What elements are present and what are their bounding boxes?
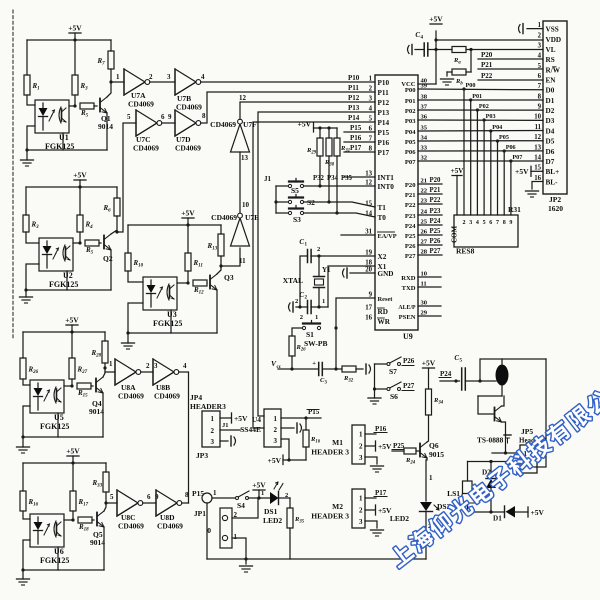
svg-text:3: 3 [325,381,328,386]
resistor Ra [452,47,466,53]
svg-text:15: 15 [534,165,541,172]
wire RES8 pin 9 riser P07 [510,161,512,215]
svg-text:+5V: +5V [268,456,282,465]
optocoupler U6 stage FGK125 [30,514,64,547]
svg-text:R16: R16 [28,498,39,508]
svg-text:P21: P21 [430,187,442,194]
svg-text:P26: P26 [430,238,442,245]
svg-text:FGK125: FGK125 [153,319,182,328]
wire Q5 collector [104,492,106,511]
svg-text:2: 2 [295,298,298,305]
svg-text:6: 6 [489,220,492,226]
svg-text:13: 13 [241,154,249,162]
svg-text:P13: P13 [348,104,360,112]
inverter U8D CD4069 [156,490,177,516]
svg-text:8: 8 [202,112,206,120]
svg-text:P00: P00 [405,87,416,94]
transistor Q2 9014 [103,236,105,249]
svg-text:Y1: Y1 [322,266,331,274]
svg-text:1: 1 [234,533,238,541]
resistor R34 [426,389,432,415]
resistor R31 pull-up [336,128,338,138]
svg-text:R33: R33 [92,479,103,489]
switch S2 [274,200,277,203]
svg-text:+5V: +5V [73,171,87,180]
svg-text:D2: D2 [546,107,555,115]
svg-text:2: 2 [359,507,363,515]
svg-text:FGK125: FGK125 [49,280,78,289]
svg-text:3: 3 [211,438,215,446]
svg-text:9014: 9014 [90,538,105,547]
svg-text:10: 10 [242,201,250,209]
wire U2 stage base node [73,242,80,244]
svg-text:P05: P05 [499,134,509,141]
svg-text:R18: R18 [78,523,89,533]
wire R34 to Q6 collector [427,415,429,442]
svg-text:5: 5 [110,493,114,501]
svg-text:RS: RS [546,56,555,64]
wire R35 down to bottom rail [289,528,291,559]
wire LS1 bottom [467,503,469,512]
svg-text:P10: P10 [348,74,360,82]
svg-text:P17: P17 [375,489,387,497]
wire DS1 to R35 [279,497,291,499]
wire U5 stage LED anode [23,379,30,385]
wire D2 branch [490,462,492,478]
inverter U8C CD4069 [117,490,138,516]
svg-text:11: 11 [535,124,542,131]
wire U8D out to P15 vertical [182,502,189,504]
wire net P00 bus [418,88,543,91]
svg-text:5: 5 [483,220,486,226]
inverter U7B CD4069 [175,69,196,95]
wire net P04 bus [418,130,543,132]
wire RES8 pin 4 riser P02 [476,110,478,215]
net stub RXD [418,276,441,278]
op-amp U9 8031 MCU box [375,75,418,330]
wire top rail U3 stage [128,224,221,226]
wire RES8 pin 6 riser P04 [490,131,492,215]
wire M2 pin1 net P17 [365,497,376,499]
speaker LS1 [467,462,469,482]
svg-text:P22: P22 [481,72,493,80]
svg-text:P06: P06 [405,149,416,156]
wire U8A to U8B [141,371,153,373]
ground U1 stage [26,150,28,160]
svg-text:CD4069: CD4069 [128,100,154,109]
svg-text:3: 3 [359,518,363,526]
svg-text:CD4069: CD4069 [176,103,202,112]
svg-text:P06: P06 [506,144,516,151]
svg-text:BL+: BL+ [546,168,560,176]
inverter U7F CD4069 (vertical) [231,124,250,152]
svg-text:D4: D4 [546,127,555,135]
resistor R11 middle [187,225,189,253]
svg-text:9: 9 [538,104,542,111]
wire U8C to U8D [143,502,156,504]
svg-text:PSEN: PSEN [399,314,416,321]
svg-text:JP3: JP3 [196,451,208,460]
wire C5 to detector [465,380,496,382]
svg-text:R13: R13 [207,242,218,252]
wire net VDD [436,39,543,41]
svg-text:P13: P13 [378,109,390,117]
resistor R13 right [220,225,222,234]
svg-text:2: 2 [146,362,150,370]
svg-text:+5V: +5V [181,209,195,218]
wire U1 stage LED cathode to rail [27,126,35,150]
wire JP1 to S4 [212,497,236,499]
svg-text:4: 4 [421,36,424,41]
resistor R16 left [22,463,24,491]
svg-text:CD4069: CD4069 [175,144,201,153]
svg-text:+5V: +5V [515,167,529,176]
svg-text:DS1: DS1 [264,507,278,516]
wire top link [480,359,546,381]
svg-text:P27: P27 [403,382,415,390]
ground symbol reset RC [365,364,367,374]
wire U5 stage base node [64,385,72,387]
wire top rail U5 stage [23,331,105,333]
svg-text:HEADER 3: HEADER 3 [311,512,349,521]
svg-text:VDD: VDD [546,36,562,44]
svg-text:P02: P02 [405,108,416,115]
wire DS2 to bottom rail [425,512,427,560]
optocoupler U1 stage FGK125 [35,100,69,133]
wire net P13 to U4 [258,112,375,416]
svg-text:8: 8 [503,220,506,226]
wire P32 to S5 row [319,156,321,186]
wire U5 stage LED cathode to rail [23,406,30,437]
svg-text:P16: P16 [350,134,362,142]
wire crystal bottom rail [311,306,328,308]
wire S4 to node [249,497,271,499]
wire Q4 emitter [102,393,104,437]
svg-text:7: 7 [538,83,542,90]
wire to Q7 base [478,396,493,414]
svg-text:9014: 9014 [98,122,113,131]
svg-text:D1: D1 [546,97,555,105]
svg-text:1: 1 [305,243,308,248]
svg-text:R16: R16 [310,436,321,445]
svg-text:4: 4 [538,53,542,60]
wire right link down to JP5 [534,359,546,467]
wire U6 out to U8C [106,502,117,504]
wire U1 out to U7A [111,81,124,83]
svg-text:TS-0888: TS-0888 [477,436,504,445]
optocoupler U2 stage FGK125 [39,238,73,271]
svg-text:R17: R17 [78,498,89,508]
transistor Q6 9015 PNP [419,444,421,457]
svg-text:6: 6 [538,73,542,80]
svg-text:S6: S6 [390,392,398,401]
transistor Q5 9014 [96,513,98,526]
wire U8B out net vertical [179,372,189,503]
wire net P02 bus [418,109,543,111]
wire top rail U1 stage [27,39,111,41]
svg-text:P25: P25 [430,228,442,235]
svg-text:P03: P03 [486,113,496,120]
wire S2 to T1 [304,202,376,207]
svg-text:R29: R29 [306,147,317,156]
wire Reset to S1 [336,298,375,369]
svg-text:CD4069: CD4069 [118,392,144,401]
wire RES8 pin 8 riser P06 [503,151,505,215]
svg-text:R35: R35 [294,516,305,525]
svg-text:P02: P02 [479,103,489,110]
svg-text:P12: P12 [378,99,390,107]
wire RES8 pin 5 riser P03 [483,120,485,215]
svg-text:1: 1 [322,298,325,305]
inverter U8B CD4069 [153,359,174,385]
svg-text:R4: R4 [85,221,94,231]
+5V D1 [527,507,529,517]
wire U6 stage LED anode [23,511,30,519]
net stub P20 to RS [478,58,543,60]
wire U5 stage photo emitter [57,413,59,437]
svg-text:R31: R31 [508,205,521,214]
svg-text:17: 17 [365,305,372,312]
svg-text:5: 5 [538,63,542,70]
wire X2 to crystal [311,255,375,257]
wire Vcc rail [278,368,319,370]
svg-text:EN: EN [546,77,557,85]
wire JP1 pin2 up to node [232,498,258,518]
connector JP1 pin circle [202,493,212,503]
svg-text:JP1: JP1 [194,509,206,518]
wire U7A to U7B [150,81,175,83]
wire blob base bar [478,395,502,397]
svg-text:J1: J1 [264,175,272,183]
resistor R7 right [110,40,112,51]
svg-text:1: 1 [213,489,217,497]
svg-text:1: 1 [359,431,363,439]
resistor R18 base [78,517,92,523]
wire U1 stage photo emitter [62,133,64,150]
resistor R6 right [116,187,118,198]
wire U7E out to U7F in [239,152,241,213]
svg-text:P32: P32 [313,175,325,182]
wire Q1 emitter [106,113,108,150]
svg-text:T0: T0 [378,214,387,222]
svg-text:P20: P20 [430,177,442,184]
wire U7C to U7D [162,122,175,124]
wire U3 stage base node [177,282,188,284]
optocoupler U5 stage FGK125 [30,380,64,413]
svg-text:13: 13 [534,144,541,151]
svg-text:ALE/P: ALE/P [398,305,416,311]
wire U1 stage base node [69,105,75,107]
ground small TS-0888 [504,434,511,436]
svg-text:12: 12 [239,94,247,102]
svg-text:SS44E: SS44E [240,425,261,434]
svg-text:P20: P20 [405,182,416,189]
connector JP1 box [220,508,232,548]
svg-text:R11: R11 [193,259,203,269]
svg-text:CD4069: CD4069 [210,120,236,129]
wire JP5 pin2 row [468,461,521,463]
svg-text:0: 0 [207,526,211,535]
wire net P12 U7F out to U9 pin3 [240,102,375,119]
svg-text:3: 3 [154,362,158,370]
wire RES8 pin 3 riser P01 [470,100,472,215]
svg-text:+5V: +5V [422,359,436,368]
wire S3 to T0 [304,213,376,217]
svg-text:FGK125: FGK125 [40,556,69,565]
wire U1 stage LED anode [27,95,35,105]
wire U6 stage LED cathode to rail [23,540,30,570]
ground U6 stage [22,570,24,579]
svg-text:6: 6 [147,493,151,501]
svg-text:1: 1 [315,314,318,321]
svg-text:R3: R3 [80,82,89,92]
svg-text:T1: T1 [378,204,387,212]
svg-text:U7F: U7F [243,120,257,129]
wire S1 left to R26 [292,328,303,336]
resistor R16 at P15 [305,418,307,430]
svg-text:2: 2 [538,32,542,39]
net stubs P15 P16 P17 into U9 [344,131,375,133]
ground U2 stage [25,290,27,297]
watermark Chinese company name [387,541,415,569]
resistor R29 pull-up [319,128,321,138]
resistor R24 [404,448,416,454]
svg-text:P23: P23 [405,213,416,220]
svg-text:S3: S3 [293,215,301,224]
svg-text:5: 5 [460,359,463,364]
wire P24 to C5 [440,380,460,382]
ground S7 S6 [374,389,376,398]
wire U4 pin3 [281,439,289,460]
svg-text:16: 16 [365,315,372,322]
wire net P03 bus [418,119,543,121]
wire U3 stage photo emitter [170,310,172,333]
svg-text:R1: R1 [32,82,40,92]
svg-text:S1: S1 [306,330,314,339]
svg-text:14: 14 [534,154,541,161]
svg-text:R27: R27 [77,366,88,376]
resistor R15 base [77,383,91,389]
wire U4 pin2 ground [281,427,294,429]
svg-text:EA/VP: EA/VP [378,233,397,240]
svg-text:1: 1 [211,415,215,423]
svg-text:R3: R3 [31,221,40,231]
svg-text:9014: 9014 [89,407,104,416]
switch S1 SW-PB [302,326,305,329]
wire net VL [436,49,452,51]
svg-text:HEADER 3: HEADER 3 [311,448,349,457]
svg-text:+: + [312,360,316,367]
svg-text:P25: P25 [393,442,405,450]
wire net P07 bus [418,160,543,162]
svg-text:1: 1 [116,73,120,81]
svg-text:D0: D0 [546,87,555,95]
ground JP2 BL- [526,190,539,192]
connector JP2 1620 LCD box [543,21,567,194]
svg-text:P22: P22 [405,202,416,209]
svg-text:P01: P01 [472,93,482,100]
svg-text:P16: P16 [375,425,387,433]
resistor R10 left [127,225,129,253]
ground U3 stage [127,333,129,343]
wire bottom rail U2 stage [26,289,111,291]
resistor R5 base [80,103,94,109]
svg-text:2: 2 [149,73,153,81]
wire C1 left to ground rail [300,256,308,307]
svg-text:S5: S5 [291,186,299,195]
svg-text:6: 6 [161,113,165,121]
wire net P11 U7D out to U9 pin2 [201,92,375,123]
resistor R33 right [105,463,107,472]
svg-text:+5V: +5V [252,481,266,490]
svg-text:Reset: Reset [378,296,394,303]
transistor Q4 9014 [95,379,97,392]
wire JP1 pin1 to rail [232,538,246,559]
resistor Rb [470,50,472,73]
switch S4 [236,497,239,500]
svg-text:R28: R28 [91,349,102,359]
svg-text:8: 8 [538,93,542,100]
inverter U7C CD4069 [136,110,157,136]
svg-text:2: 2 [369,86,373,93]
connector M1 HEADER 3 box [352,425,365,464]
svg-text:S7: S7 [389,367,397,376]
wire M2 pin2 +5V [365,509,375,511]
svg-text:1: 1 [359,495,363,503]
svg-text:1: 1 [109,360,113,368]
svg-text:+5V: +5V [531,508,545,517]
svg-text:9: 9 [168,113,172,121]
net stub ALE/P [418,305,441,307]
svg-text:VSS: VSS [546,26,559,34]
wire M1 pin2 +5V [365,445,375,447]
svg-text:CD4069: CD4069 [133,144,159,153]
svg-text:P27: P27 [405,253,416,260]
wire M2 pin3 ground [365,521,377,528]
svg-text:R5: R5 [80,109,89,119]
svg-text:WR: WR [378,318,391,326]
wire Q3 emitter [216,290,218,333]
svg-text:P24: P24 [430,218,442,225]
net stub P21 to R/W [478,68,543,70]
transistor Q3 9014 [209,276,211,289]
net stub TXD [418,286,441,288]
wire net P14 to U4 [253,122,375,428]
resistor R5 base [85,240,99,246]
svg-text:P11: P11 [378,89,390,97]
svg-text:P26: P26 [403,357,415,365]
wire JP5 pin1 row [492,452,520,454]
wire RES8 pin 7 riser P05 [497,141,499,215]
svg-text:P00: P00 [466,82,476,89]
wire Q7 emitter down to JP5 pin1 [502,422,506,453]
svg-text:U3: U3 [167,310,177,319]
svg-text:+5V: +5V [68,24,82,33]
switch S3 [276,212,289,214]
IR detector blob [496,365,509,386]
wire top rail U6 stage [23,462,106,464]
wire net P05 bus [418,140,543,142]
svg-text:+5V: +5V [378,442,392,451]
svg-text:FGK125: FGK125 [40,422,69,431]
switch S7 [375,363,388,365]
optocoupler U3 stage FGK125 [143,277,177,310]
wire JP4 pin2 [220,429,240,431]
wire U3 stage LED anode [128,271,143,282]
svg-text:D1: D1 [493,515,502,523]
wire U4 pin1 net P15 [281,417,321,419]
wire blob top [501,359,503,365]
